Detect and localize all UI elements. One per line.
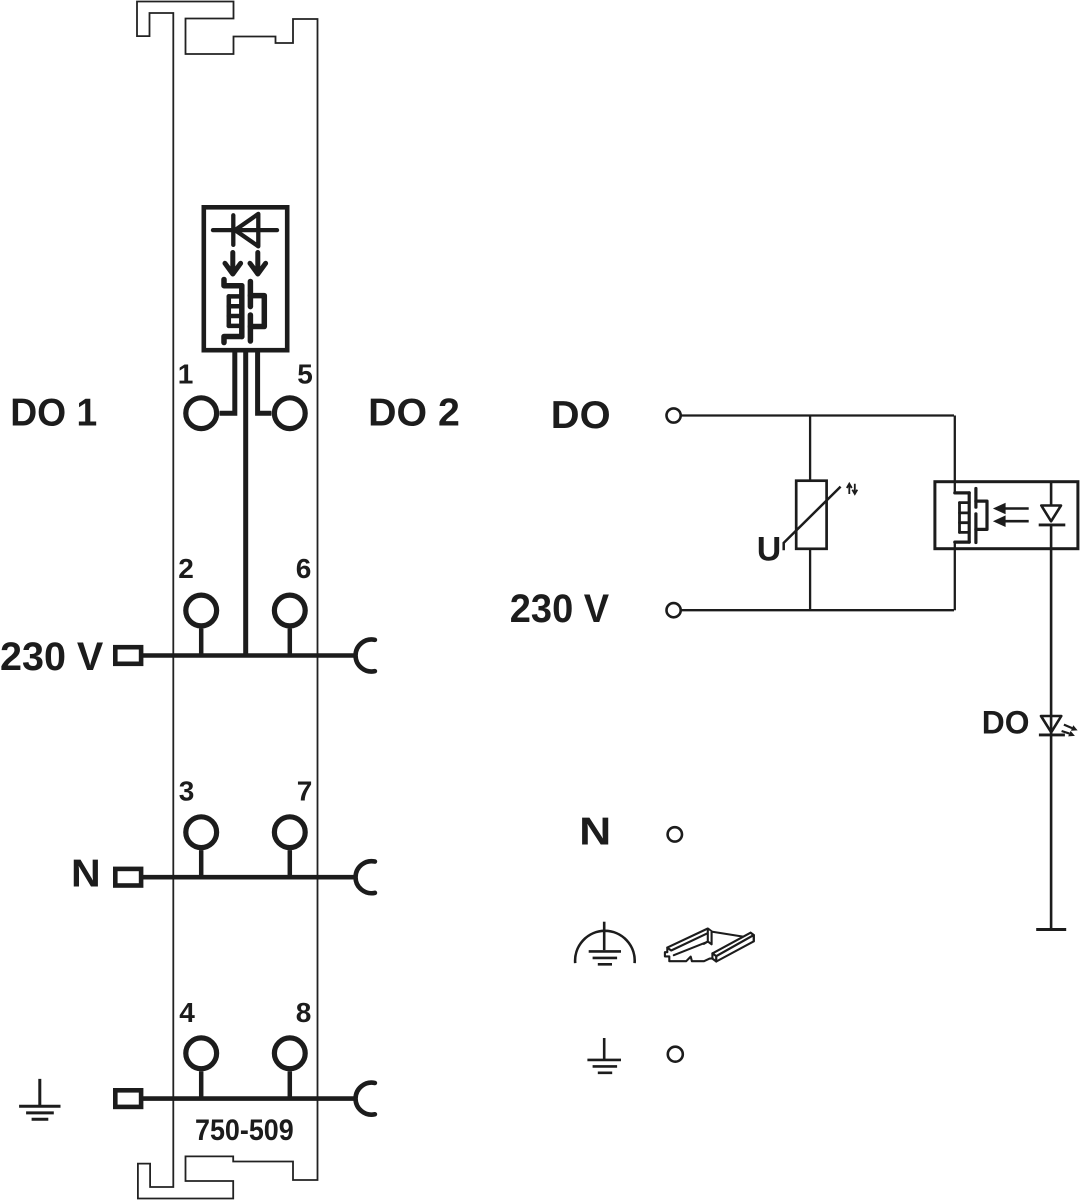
DIN rail web floor face — [671, 931, 744, 961]
svg-text:6: 6 — [296, 553, 312, 584]
wire from block to terminal 1 — [220, 353, 235, 414]
PE bus wire — [143, 1096, 356, 1101]
230V terminal circle right — [667, 603, 681, 617]
SSR switch Q2 gate line upper — [974, 489, 977, 508]
indicator LED D3 triangle — [1041, 716, 1061, 732]
svg-text:3: 3 — [179, 776, 195, 807]
stem terminal 3 to N bus — [199, 850, 204, 877]
stem terminal 7 to N bus — [288, 850, 293, 877]
SSR switch Q2 right rail — [968, 493, 971, 542]
stem terminal 4 to PE bus — [199, 1071, 204, 1098]
wire from block to terminal 5 — [258, 353, 272, 414]
svg-text:5: 5 — [297, 358, 313, 389]
optocoupler arrow right — [250, 253, 266, 275]
SSR switch Q2 bottom bar — [955, 540, 969, 543]
svg-text:230 V: 230 V — [0, 635, 104, 679]
terminal 3 circle — [186, 817, 217, 848]
SSR LED D2 top lead — [1050, 482, 1053, 506]
svg-text:1: 1 — [178, 358, 194, 389]
varistor RV1 diagonal — [784, 487, 841, 551]
svg-text:2: 2 — [178, 553, 194, 584]
semiconductor switch Q1 bottom bar — [224, 337, 242, 343]
wire varistor bottom branch — [809, 549, 811, 610]
svg-text:DO: DO — [982, 705, 1030, 741]
svg-text:DO: DO — [551, 394, 611, 437]
SSR switch Q2 top bar — [955, 491, 969, 494]
DIN rail left flange end face — [708, 930, 712, 944]
wire out of SSR box bottom — [954, 542, 956, 610]
svg-text:230 V: 230 V — [510, 587, 610, 631]
svg-text:8: 8 — [296, 997, 312, 1028]
SSR optocoupler U2 box — [935, 482, 1078, 549]
svg-text:U: U — [757, 531, 782, 569]
diode D1 triangle — [235, 214, 258, 246]
wire LED branch end bar — [1036, 928, 1066, 931]
stem terminal 2 to 230V bus — [199, 628, 204, 655]
PE terminal rect — [115, 1090, 141, 1107]
DIN rail right flange top face — [712, 933, 753, 957]
clean earth symbol bars — [589, 951, 621, 964]
wire LED branch down — [1050, 525, 1053, 930]
svg-text:DO 2: DO 2 — [368, 392, 460, 435]
stem terminal 8 to PE bus — [288, 1071, 293, 1098]
230V terminal rect — [115, 647, 141, 664]
230V bus jumper contact arc — [356, 640, 375, 672]
DIN rail left flange end face lower tick — [704, 942, 708, 944]
DIN rail left flange outer face lower edge — [674, 942, 708, 956]
varistor RV1 up-down arrows — [847, 484, 858, 494]
SSR LED D2 triangle — [1041, 506, 1061, 522]
SSR light arrow upper — [1004, 507, 1029, 510]
SSR switch Q2 comb spine — [958, 503, 961, 533]
terminal 4 circle — [186, 1038, 217, 1069]
function block U1 box — [204, 207, 287, 350]
PE terminal circle right — [668, 1047, 683, 1062]
terminal 2 circle — [186, 595, 217, 626]
semiconductor switch Q1 gate line upper — [248, 282, 254, 307]
ground symbol left — [19, 1079, 60, 1119]
svg-text:N: N — [71, 853, 101, 896]
SSR switch Q2 gate line lower — [974, 514, 977, 543]
DIN rail right flange near end face — [712, 953, 716, 961]
module outline 750-509 body — [137, 2, 318, 1199]
wire DO to optocoupler — [681, 414, 954, 416]
semiconductor switch Q1 comb teeth — [229, 296, 242, 326]
svg-text:4: 4 — [179, 997, 195, 1028]
PE bus jumper contact arc — [356, 1083, 375, 1115]
terminal 6 circle — [274, 595, 305, 626]
terminal 5 circle — [274, 398, 305, 429]
N bus wire — [143, 875, 356, 880]
semiconductor switch Q1 right rail — [239, 286, 245, 337]
terminal 1 circle — [186, 398, 217, 429]
clean earth symbol vertical — [603, 922, 606, 950]
SSR switch Q2 gate bracket — [976, 501, 987, 529]
wire from block to 230V bus — [243, 353, 248, 656]
indicator LED D3 cathode bar — [1039, 733, 1065, 736]
SSR light arrow lower — [1004, 520, 1029, 523]
DIN rail right flange far cap — [751, 933, 754, 942]
semiconductor switch Q1 top bar — [224, 280, 242, 286]
svg-text:7: 7 — [297, 776, 313, 807]
semiconductor switch Q1 comb spine — [227, 296, 232, 326]
DIN rail right flange side face — [716, 935, 754, 961]
DIN rail icon — [665, 929, 754, 962]
varistor RV1 body — [796, 481, 826, 549]
svg-text:N: N — [579, 811, 611, 854]
terminal 8 circle — [274, 1038, 305, 1069]
N terminal circle right — [668, 827, 682, 841]
wire into SSR box top — [954, 416, 956, 493]
diode D1 cathode bar — [231, 215, 235, 245]
DO terminal circle — [667, 408, 681, 422]
optocoupler arrow left — [225, 253, 241, 275]
ground symbol right bottom — [587, 1038, 621, 1073]
wire varistor top branch — [809, 416, 811, 481]
indicator LED D3 light arrows — [1062, 725, 1073, 734]
230V bus wire — [143, 653, 356, 658]
SSR LED D2 cathode bar — [1039, 523, 1066, 526]
DIN rail left foot profile and bottom lip with notch — [665, 948, 713, 962]
diode D1 (triac) horizontal line — [213, 228, 277, 232]
stem terminal 6 to 230V bus — [288, 628, 293, 655]
clean earth symbol arc — [575, 931, 635, 963]
semiconductor switch Q1 gate bracket — [250, 296, 264, 327]
svg-text:DO 1: DO 1 — [10, 392, 97, 435]
terminal 7 circle — [274, 817, 305, 848]
semiconductor switch Q1 gate line lower — [248, 315, 254, 341]
N terminal rect — [115, 869, 141, 886]
wire 230V to optocoupler — [681, 609, 954, 611]
DIN rail left flange top face — [667, 929, 711, 951]
svg-text:750-509: 750-509 — [195, 1114, 294, 1147]
SSR switch Q2 comb teeth — [960, 503, 970, 533]
DIN rail web far cut edge — [712, 932, 745, 937]
N bus jumper contact arc — [356, 861, 375, 893]
